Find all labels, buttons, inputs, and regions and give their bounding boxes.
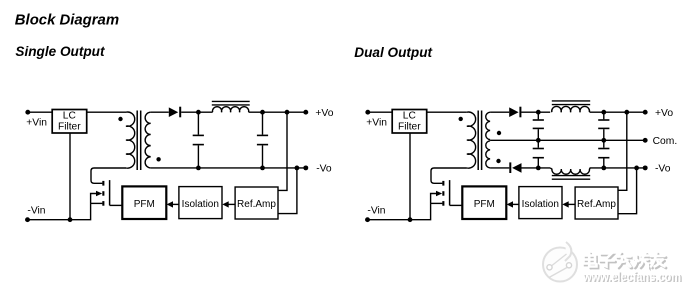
- svg-text:Isolation: Isolation: [522, 199, 559, 210]
- transformer T2 core: [477, 111, 479, 171]
- node C2 bottom junction: [260, 166, 265, 171]
- wire center tap Com rail: [490, 139, 645, 141]
- node -Vo terminal: [303, 165, 308, 170]
- node C3/C4 Com junction: [536, 138, 541, 143]
- wire gate to PFM: [110, 204, 123, 206]
- wire bottom output rail (dual): [590, 167, 646, 169]
- wire drain to transformer primary bottom (dual): [431, 168, 467, 183]
- node C5/C6 Com junction: [601, 138, 606, 143]
- inductor L3 core: [552, 176, 590, 180]
- svg-text:Filter: Filter: [58, 121, 81, 132]
- inductor L1: [213, 107, 249, 113]
- wire feedback +Vo sense: [278, 112, 287, 190]
- node C5 top junction: [601, 110, 606, 115]
- node feedback tap on +Vo rail: [285, 110, 290, 115]
- svg-text:+Vo: +Vo: [315, 108, 333, 119]
- diode D2 (top, dual): [509, 107, 521, 118]
- wire arrow Ref.Amp to Isolation (dual): [562, 201, 575, 207]
- capacitor C4 (lower left, dual): [533, 140, 544, 168]
- svg-text:Dual Output: Dual Output: [354, 45, 432, 60]
- Isolation box U3: [179, 187, 222, 219]
- svg-text:www.elecfans.com: www.elecfans.com: [582, 270, 681, 284]
- wire arrow Isolation to PFM (dual): [507, 201, 519, 207]
- svg-text:+Vin: +Vin: [26, 117, 47, 128]
- inductor L3 (bottom, dual): [550, 168, 590, 174]
- wire +Vin to LC filter (dual): [368, 111, 392, 113]
- transistor Q1 MOSFET: [96, 180, 110, 206]
- svg-text:-Vin: -Vin: [367, 205, 385, 216]
- transformer T1 secondary winding: [145, 112, 151, 168]
- wire -Vin rail: [28, 203, 91, 219]
- node junction LC-bottom on -Vin rail (dual): [408, 217, 413, 222]
- wire output top rail: [249, 111, 306, 113]
- transformer T1 primary phase dot: [118, 117, 122, 121]
- node +Vo terminal (dual): [643, 110, 648, 115]
- transformer T1 primary winding: [126, 112, 135, 168]
- node +Vin terminal: [25, 110, 30, 115]
- wire body to source tie: [91, 194, 97, 204]
- wire body to source tie (dual): [431, 194, 437, 204]
- transformer T1 secondary phase dot: [156, 157, 160, 161]
- diode D1: [169, 107, 181, 118]
- inductor L1 core: [212, 101, 250, 105]
- node C4 bottom junction: [536, 166, 541, 171]
- svg-text:PFM: PFM: [134, 199, 155, 210]
- Isolation box U7 (dual): [519, 187, 562, 219]
- wire diode to inductor: [181, 111, 212, 113]
- wire D2 to top inductor: [521, 111, 550, 113]
- svg-text:LC: LC: [403, 111, 416, 122]
- svg-text:Ref.Amp: Ref.Amp: [577, 199, 616, 210]
- svg-text:Block Diagram: Block Diagram: [15, 12, 119, 28]
- node -Vin terminal: [25, 217, 30, 222]
- node Com terminal (dual): [643, 138, 648, 143]
- node C6 bottom junction: [601, 166, 606, 171]
- wire LC filter to transformer primary top (dual): [427, 111, 467, 113]
- transistor Q2 MOSFET (dual): [436, 180, 450, 206]
- svg-text:+Vo: +Vo: [655, 108, 673, 119]
- wire D3 to bottom inductor: [521, 167, 550, 169]
- inductor L2 (top, dual): [552, 106, 590, 112]
- node +Vo terminal: [303, 110, 308, 115]
- node C1 bottom junction: [196, 166, 201, 171]
- node C2 top junction: [260, 110, 265, 115]
- node -Vin terminal (dual): [365, 217, 370, 222]
- capacitor C6 (lower right, dual): [598, 140, 609, 168]
- capacitor C3 (upper left, dual): [533, 112, 544, 140]
- wire gate to PFM (dual): [450, 204, 463, 206]
- wire feedback -Vo sense: [278, 168, 297, 214]
- svg-text:-Vo: -Vo: [655, 164, 671, 175]
- wire arrow Isolation to PFM: [167, 201, 179, 207]
- node +Vin terminal (dual): [365, 110, 370, 115]
- svg-text:LC: LC: [63, 111, 76, 122]
- svg-text:Ref.Amp: Ref.Amp: [237, 199, 276, 210]
- transformer T1 core: [136, 111, 138, 171]
- svg-text:Com.: Com.: [653, 136, 678, 147]
- diode D3 (bottom, dual, reversed): [509, 162, 521, 173]
- node feedback tap on +Vo rail (dual): [624, 110, 629, 115]
- transformer T2 secondary lower phase dot: [496, 159, 500, 163]
- capacitor C2: [257, 112, 268, 168]
- Ref.Amp box U8 (dual): [575, 187, 618, 219]
- node feedback tap on -Vo rail: [295, 166, 300, 171]
- node junction LC-bottom on -Vin rail: [68, 217, 73, 222]
- capacitor C1: [193, 112, 204, 168]
- wire LC filter bottom to -Vin rail (dual): [409, 133, 411, 220]
- PFM box U6 (dual): [462, 186, 506, 219]
- wire -Vin rail (dual): [368, 203, 431, 219]
- wire top output rail (dual): [590, 111, 646, 113]
- svg-text:-Vo: -Vo: [316, 164, 332, 175]
- transformer T2 primary phase dot: [459, 117, 463, 121]
- node -Vo terminal (dual): [643, 165, 648, 170]
- node feedback tap on -Vo rail (dual): [634, 166, 639, 171]
- transformer T2 secondary lower winding: [486, 141, 490, 168]
- svg-text:Isolation: Isolation: [182, 199, 219, 210]
- svg-text:+Vin: +Vin: [366, 117, 387, 128]
- wire output bottom rail: [151, 167, 306, 169]
- wire LC filter to transformer primary top: [87, 111, 126, 113]
- transformer T2 (dual): [467, 111, 490, 171]
- wire secondary top to diode: [151, 111, 169, 113]
- node C1 top junction: [196, 110, 201, 115]
- node C3 top junction: [536, 110, 541, 115]
- transformer T2 secondary upper winding: [486, 112, 490, 139]
- LC filter box U1: [52, 110, 86, 134]
- wire +Vin to LC filter: [28, 111, 52, 113]
- svg-text:-Vin: -Vin: [27, 205, 45, 216]
- PFM box U2: [122, 186, 166, 219]
- svg-text:Single Output: Single Output: [15, 44, 105, 59]
- svg-text:PFM: PFM: [474, 199, 495, 210]
- capacitor C5 (upper right, dual): [598, 112, 609, 140]
- wire LC filter bottom to -Vin rail: [69, 133, 71, 220]
- wire arrow Ref.Amp to Isolation: [222, 201, 235, 207]
- transformer T1: [126, 111, 151, 171]
- wire bottom rail secondary to D3: [490, 167, 509, 169]
- watermark logo circle: [543, 242, 577, 282]
- wire source to rail (dual): [431, 202, 443, 204]
- Ref.Amp box U4: [235, 187, 278, 219]
- wire feedback -Vo sense (dual): [618, 168, 637, 214]
- transformer T2 secondary upper phase dot: [497, 131, 501, 135]
- svg-text:Filter: Filter: [398, 121, 421, 132]
- wire drain to transformer primary bottom: [91, 168, 126, 183]
- wire secondary top to diode D2: [490, 111, 509, 113]
- transformer T2 primary winding: [467, 112, 476, 168]
- wire feedback +Vo sense (dual): [618, 112, 627, 190]
- LC filter box U5 (dual): [392, 110, 427, 134]
- wire source to rail: [91, 202, 103, 204]
- inductor L2 core: [552, 101, 590, 105]
